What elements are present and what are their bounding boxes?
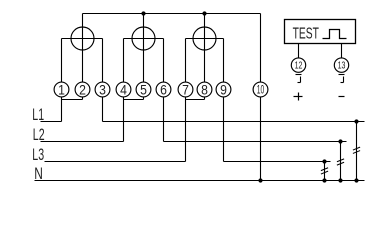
svg-text:5: 5 xyxy=(140,81,147,97)
svg-text:N: N xyxy=(34,164,43,183)
svg-text:7: 7 xyxy=(182,81,189,97)
svg-text:TEST: TEST xyxy=(293,25,319,42)
svg-text:L3: L3 xyxy=(32,145,44,164)
svg-text:10: 10 xyxy=(257,85,265,97)
svg-text:9: 9 xyxy=(220,81,227,97)
svg-text:4: 4 xyxy=(120,81,127,97)
svg-text:3: 3 xyxy=(99,81,106,97)
svg-text:2: 2 xyxy=(79,81,86,97)
svg-text:8: 8 xyxy=(201,81,208,97)
svg-text:12: 12 xyxy=(295,61,303,72)
svg-text:13: 13 xyxy=(338,61,346,72)
svg-text:L1: L1 xyxy=(32,105,44,124)
svg-text:L2: L2 xyxy=(33,125,45,144)
svg-text:6: 6 xyxy=(160,81,167,97)
svg-text:1: 1 xyxy=(58,81,65,97)
